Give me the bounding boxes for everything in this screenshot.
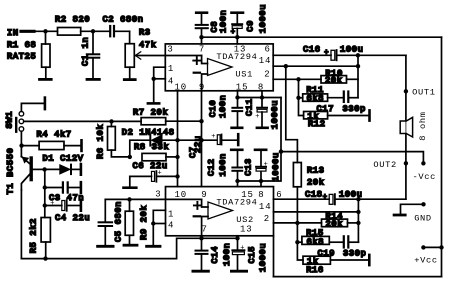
wire US2 +input bbox=[202, 199, 208, 207]
node C16 to OUT vertical junction bbox=[356, 53, 360, 57]
speaker 8 ohm bbox=[400, 111, 428, 140]
op-amp US2 TDA7294 body bbox=[166, 187, 274, 236]
svg-text:T1 BC550: T1 BC550 bbox=[6, 148, 16, 195]
wire +Vcc tap bbox=[423, 246, 441, 248]
resistor R4 4k7 bbox=[22, 129, 82, 151]
node IN input terminal bbox=[7, 28, 58, 38]
resistor R5 2k2 bbox=[29, 218, 51, 259]
wire US1 pin4 bbox=[154, 78, 166, 80]
svg-text:3: 3 bbox=[167, 44, 173, 54]
resistor R14 20k bbox=[322, 211, 359, 229]
node input junction bbox=[43, 29, 47, 33]
svg-text:330p: 330p bbox=[343, 104, 367, 114]
svg-text:C15: C15 bbox=[247, 246, 257, 264]
wire OUT2 return to C18 bbox=[358, 198, 406, 200]
svg-text:TDA7294: TDA7294 bbox=[216, 52, 257, 62]
wire -Vcc feed bbox=[281, 152, 423, 164]
transistor T1 BC550 bbox=[6, 148, 45, 195]
wire US1 pin14 output bbox=[273, 65, 358, 67]
capacitor C9 1000u bbox=[231, 4, 268, 44]
capacitor C4 22u bbox=[45, 200, 90, 223]
wire base node down bbox=[44, 169, 46, 217]
svg-text:4: 4 bbox=[168, 76, 174, 86]
wire US1 pin1 bbox=[154, 67, 166, 103]
wire pin2 node to R16 bbox=[297, 242, 303, 260]
node C13 junction bbox=[259, 179, 263, 183]
wire OUT1 branch bbox=[405, 55, 407, 199]
svg-text:+: + bbox=[323, 194, 327, 202]
wire US1 pins 15 and 8 supply bbox=[238, 91, 282, 98]
svg-text:22u: 22u bbox=[193, 135, 203, 153]
node GND terminal bbox=[421, 202, 425, 206]
svg-text:1000u: 1000u bbox=[270, 100, 280, 129]
node pin15 junction bbox=[235, 95, 239, 99]
resistor R2 820 bbox=[55, 15, 90, 36]
potentiometer R3 47k bbox=[125, 28, 156, 79]
wire OUT2 node vertical bbox=[357, 199, 359, 242]
node +Vcc rail junction bbox=[439, 245, 443, 249]
wire US2 pin4 bbox=[153, 223, 165, 225]
node R14 right junction bbox=[356, 221, 360, 225]
svg-text:9: 9 bbox=[201, 190, 207, 200]
wire R3 wiper arrow to US1 pin 3 bbox=[135, 52, 201, 59]
svg-text:8: 8 bbox=[258, 190, 264, 200]
wire SW1 bottom to T1 bbox=[20, 131, 22, 156]
op-amp US1 triangle bbox=[208, 59, 233, 76]
node -Vcc terminal bbox=[421, 161, 425, 165]
svg-text:GND: GND bbox=[414, 213, 432, 223]
resistor R9 20k bbox=[124, 199, 149, 245]
svg-text:330p: 330p bbox=[343, 248, 367, 258]
svg-text:+: + bbox=[50, 200, 54, 208]
svg-text:IN: IN bbox=[7, 28, 19, 38]
svg-text:R4 4k7: R4 4k7 bbox=[37, 129, 72, 139]
switch SW1 bbox=[5, 98, 45, 132]
wire pin2 node down bbox=[298, 79, 300, 98]
capacitor C7 22u bbox=[188, 133, 238, 158]
resistor R10 20k bbox=[321, 68, 358, 85]
node OUT1 terminal bbox=[404, 89, 408, 93]
svg-text:20k: 20k bbox=[307, 178, 325, 188]
wire pin2 node to R12 bbox=[299, 98, 304, 116]
ground bar under R3 bbox=[124, 78, 135, 81]
capacitor C18 100u bootstrap bbox=[274, 190, 363, 205]
svg-text:C12: C12 bbox=[207, 158, 217, 176]
svg-text:C10: C10 bbox=[208, 100, 218, 118]
svg-text:4: 4 bbox=[168, 221, 174, 231]
wire US2 pin8 stub bbox=[260, 181, 262, 187]
diode D2 1N4148 bbox=[122, 128, 217, 146]
node pin14 US2 junction bbox=[356, 210, 360, 214]
node pin2 junction bbox=[296, 77, 300, 81]
svg-text:+: + bbox=[231, 28, 235, 36]
node C3 junction bbox=[43, 185, 47, 189]
svg-text:R9 20k: R9 20k bbox=[139, 205, 149, 240]
wire US1 pin2 feedback bbox=[273, 78, 321, 80]
svg-text:US2: US2 bbox=[236, 215, 254, 225]
capacitor C19 330p bbox=[318, 236, 367, 258]
node R6 top junction bbox=[109, 119, 113, 123]
capacitor C15 1000u bbox=[231, 238, 268, 272]
wire US2 right edge extension to bottom rail bbox=[273, 236, 275, 277]
op-amp US2 triangle bbox=[208, 202, 233, 219]
resistor R16 1k bbox=[303, 255, 369, 275]
ground bar under C1 bbox=[87, 78, 99, 81]
wire +Vcc top rail bbox=[202, 36, 442, 38]
wire US2 pin14 output bbox=[274, 211, 359, 213]
node C6 pin10 junction bbox=[175, 174, 179, 178]
svg-text:47k: 47k bbox=[139, 40, 157, 50]
svg-text:C4 22u: C4 22u bbox=[55, 213, 90, 223]
node C1 junction bbox=[91, 29, 95, 33]
capacitor C12 100n bbox=[207, 150, 243, 181]
wire US1 -input to pin9 column bbox=[202, 74, 208, 91]
svg-text:-Vcc: -Vcc bbox=[413, 172, 437, 182]
wire US1 pin10 to US2 bbox=[177, 91, 179, 187]
node R8 pin10 junction bbox=[175, 155, 179, 159]
svg-text:20k: 20k bbox=[326, 219, 344, 229]
node pin8 junction bbox=[260, 95, 264, 99]
op-amp US2 labels bbox=[155, 190, 282, 235]
node C18 OUT2 junction bbox=[356, 197, 360, 201]
wire input to R1 bbox=[45, 31, 47, 44]
wire US2 pin7 stub bbox=[201, 236, 203, 239]
node T1 base junction bbox=[42, 167, 46, 171]
capacitor C1 1n bbox=[81, 31, 100, 78]
svg-text:R3: R3 bbox=[139, 28, 151, 38]
op-amp US1 labels bbox=[167, 44, 271, 92]
capacitor C5 680n bbox=[98, 199, 124, 246]
resistor R11 6k8 bbox=[299, 85, 343, 104]
svg-text:10: 10 bbox=[175, 190, 188, 200]
capacitor C14 100n bbox=[193, 238, 232, 271]
svg-text:7: 7 bbox=[199, 44, 205, 54]
svg-text:6k8: 6k8 bbox=[307, 237, 325, 247]
svg-text:R2 820: R2 820 bbox=[55, 15, 90, 25]
wire US2 pin2 feedback bbox=[274, 222, 322, 224]
svg-text:D2 1N4148: D2 1N4148 bbox=[122, 128, 175, 138]
node R7 to pin9 junction bbox=[199, 119, 203, 123]
svg-text:C2 680n: C2 680n bbox=[103, 15, 144, 25]
svg-text:6: 6 bbox=[276, 190, 282, 200]
svg-text:C16: C16 bbox=[303, 45, 321, 55]
svg-text:14: 14 bbox=[259, 202, 272, 212]
svg-text:6: 6 bbox=[265, 44, 271, 54]
svg-text:1: 1 bbox=[168, 209, 174, 219]
svg-text:OUT1: OUT1 bbox=[412, 88, 436, 98]
wire OUT node vertical bbox=[357, 55, 359, 97]
wire US2 -input to pin7 column bbox=[202, 217, 208, 236]
node C8 rail junction bbox=[199, 35, 203, 39]
svg-text:OUT2: OUT2 bbox=[373, 160, 397, 170]
node C9 rail junction bbox=[235, 35, 239, 39]
svg-text:1000u: 1000u bbox=[258, 243, 268, 272]
svg-text:C13: C13 bbox=[243, 158, 253, 176]
wire US2 pin2 node down bbox=[296, 223, 298, 242]
node C15 junction bbox=[235, 236, 239, 240]
svg-text:D1 C12V: D1 C12V bbox=[43, 153, 84, 163]
wire T1 emitter down bbox=[20, 190, 22, 259]
ground bar under US2 pins 1-4 bbox=[147, 245, 160, 248]
resistor R12 1k bbox=[304, 110, 370, 129]
capacitor C3 47n bbox=[45, 182, 84, 203]
capacitor C10 100n bbox=[208, 95, 242, 128]
wire US1 +input bbox=[202, 56, 208, 64]
svg-text:100u: 100u bbox=[340, 45, 364, 55]
svg-text:3: 3 bbox=[155, 190, 161, 200]
capacitor C6 22u bbox=[124, 161, 178, 188]
node R11 junction bbox=[296, 96, 300, 100]
svg-text:R1 68: R1 68 bbox=[7, 40, 36, 50]
node C4 junction bbox=[43, 203, 47, 207]
wire mute rail bottom bbox=[21, 238, 237, 258]
svg-text:C18: C18 bbox=[305, 190, 323, 200]
svg-text:13: 13 bbox=[240, 225, 253, 235]
capacitor C2 680n bbox=[103, 15, 144, 44]
wire US2 pin1 bbox=[153, 210, 165, 245]
node D2 pin9 junction bbox=[199, 138, 203, 142]
wire OUT1 to R13 step bbox=[286, 66, 298, 162]
node +Vcc terminal bbox=[421, 245, 425, 249]
svg-text:100n: 100n bbox=[219, 10, 229, 34]
zener diode D1 C12V bbox=[43, 153, 84, 174]
svg-text:C11: C11 bbox=[244, 98, 254, 116]
resistor R1 68 RAT25 bbox=[7, 40, 50, 78]
svg-text:1000u: 1000u bbox=[271, 152, 281, 181]
resistor R15 6k8 bbox=[297, 228, 342, 247]
svg-text:100n: 100n bbox=[222, 243, 232, 267]
wire -Vs column bbox=[238, 98, 282, 182]
svg-text:2: 2 bbox=[264, 214, 270, 224]
node R9 top junction bbox=[127, 197, 131, 201]
svg-text:100n: 100n bbox=[218, 153, 228, 177]
wire D2 row bbox=[130, 140, 150, 157]
capacitor C13 1000u bbox=[243, 150, 281, 182]
svg-text:TDA7294: TDA7294 bbox=[216, 197, 257, 207]
terminal stub below pins 1-4 bbox=[148, 102, 159, 105]
svg-text:1000u: 1000u bbox=[258, 4, 268, 33]
svg-text:C6 22u: C6 22u bbox=[133, 161, 168, 171]
node R5 bottom junction bbox=[43, 256, 47, 260]
node US2 pin2 junction bbox=[295, 221, 299, 225]
svg-text:US1: US1 bbox=[235, 69, 253, 79]
node R8 left junction bbox=[128, 155, 132, 159]
svg-text:R13: R13 bbox=[307, 165, 325, 175]
capacitor C16 100u bootstrap bbox=[273, 45, 406, 61]
svg-text:R12: R12 bbox=[308, 119, 326, 129]
svg-text:R16: R16 bbox=[306, 265, 324, 275]
wire +Vcc right rail bbox=[441, 37, 443, 276]
node -Vcc feed junction bbox=[279, 149, 283, 153]
svg-text:R7 20k: R7 20k bbox=[133, 107, 168, 117]
wire US1 pin9 to US2 bbox=[201, 91, 203, 187]
svg-text:R6 10k: R6 10k bbox=[96, 124, 106, 159]
svg-text:1: 1 bbox=[168, 64, 174, 74]
node pin14 branch junction bbox=[284, 64, 288, 68]
svg-text:RAT25: RAT25 bbox=[7, 52, 36, 62]
svg-text:14: 14 bbox=[259, 56, 272, 66]
capacitor C11 1000u bbox=[244, 98, 280, 130]
capacitor C8 100n bbox=[196, 10, 229, 44]
capacitor C17 330p bbox=[317, 92, 367, 115]
node US2 pins 1-4 junction bbox=[151, 221, 155, 225]
wire US2 pin3 bbox=[105, 198, 201, 200]
resistor R8 33k bbox=[134, 142, 178, 161]
node pins 1-4 junction bbox=[152, 77, 156, 81]
ground bar under R1 bbox=[40, 78, 52, 81]
resistor R13 20k bridge bbox=[293, 163, 324, 223]
svg-text:100n: 100n bbox=[218, 95, 228, 119]
op-amp US1 TDA7294 body bbox=[165, 44, 273, 91]
svg-text:8: 8 bbox=[258, 83, 264, 93]
wire US2 pin15 stub bbox=[237, 181, 239, 187]
wire bottom rail bbox=[274, 276, 442, 278]
wire SW1 to R7 bbox=[24, 120, 141, 122]
svg-text:+: + bbox=[255, 113, 259, 121]
svg-text:C14: C14 bbox=[210, 246, 220, 264]
resistor R7 20k bbox=[133, 107, 202, 124]
node R15 junction bbox=[295, 240, 299, 244]
node D2 pin10 junction bbox=[175, 138, 179, 142]
svg-text:2: 2 bbox=[264, 69, 270, 79]
wire R2 to C2 bbox=[81, 30, 110, 32]
node R4 branch junction bbox=[19, 143, 23, 147]
svg-text:C9: C9 bbox=[246, 20, 256, 32]
ground symbol GND bbox=[394, 204, 423, 215]
node C14 junction bbox=[199, 236, 203, 240]
svg-text:+: + bbox=[211, 133, 215, 141]
svg-text:SW1: SW1 bbox=[5, 111, 15, 129]
svg-text:R8 33k: R8 33k bbox=[134, 142, 169, 152]
svg-text:20k: 20k bbox=[325, 75, 343, 85]
svg-text:R5 2k2: R5 2k2 bbox=[29, 218, 39, 253]
svg-text:6k8: 6k8 bbox=[307, 94, 325, 104]
svg-text:10: 10 bbox=[175, 83, 188, 93]
resistor R6 10k bbox=[96, 121, 130, 159]
svg-text:8 ohm: 8 ohm bbox=[418, 111, 428, 140]
node OUT2 terminal bbox=[404, 161, 408, 165]
wire US2 pin13 stub bbox=[237, 236, 239, 239]
node C12 junction bbox=[235, 179, 239, 183]
svg-text:C1 1n: C1 1n bbox=[81, 37, 91, 66]
svg-text:+Vcc: +Vcc bbox=[414, 256, 438, 266]
node pin14 feedback junction bbox=[356, 64, 360, 68]
svg-text:C5 680n: C5 680n bbox=[114, 201, 124, 242]
